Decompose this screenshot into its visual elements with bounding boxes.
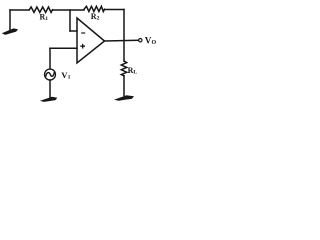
wire right vertical (feedback/output rail) xyxy=(123,10,125,62)
wire R1 to R2 xyxy=(53,9,85,11)
wire top to R1 xyxy=(10,9,29,11)
resistor R1 xyxy=(29,7,52,12)
wire R2 to corner xyxy=(105,9,125,11)
wire V1 top lead xyxy=(49,48,51,69)
wire op-amp output xyxy=(105,39,139,42)
resistor R2 xyxy=(84,6,105,11)
op-amp U1 xyxy=(77,18,105,63)
wire top-left vertical xyxy=(9,10,11,32)
ground (top-left earth) xyxy=(2,28,18,35)
wire V1 bottom lead xyxy=(49,80,51,98)
sine mark xyxy=(46,73,54,77)
ground (bottom-right earth) xyxy=(114,95,134,100)
resistor RL xyxy=(121,61,126,76)
node Vo terminal xyxy=(139,39,142,42)
plus mark xyxy=(81,45,84,48)
minus mark xyxy=(82,32,85,34)
wire plus input xyxy=(50,47,77,49)
wire junction drop to inverting input xyxy=(69,10,71,31)
source V1 xyxy=(45,69,56,80)
wire stub to op-amp minus input xyxy=(70,30,77,32)
wire RL to ground xyxy=(123,76,125,96)
ground (bottom-left earth) xyxy=(40,97,58,102)
